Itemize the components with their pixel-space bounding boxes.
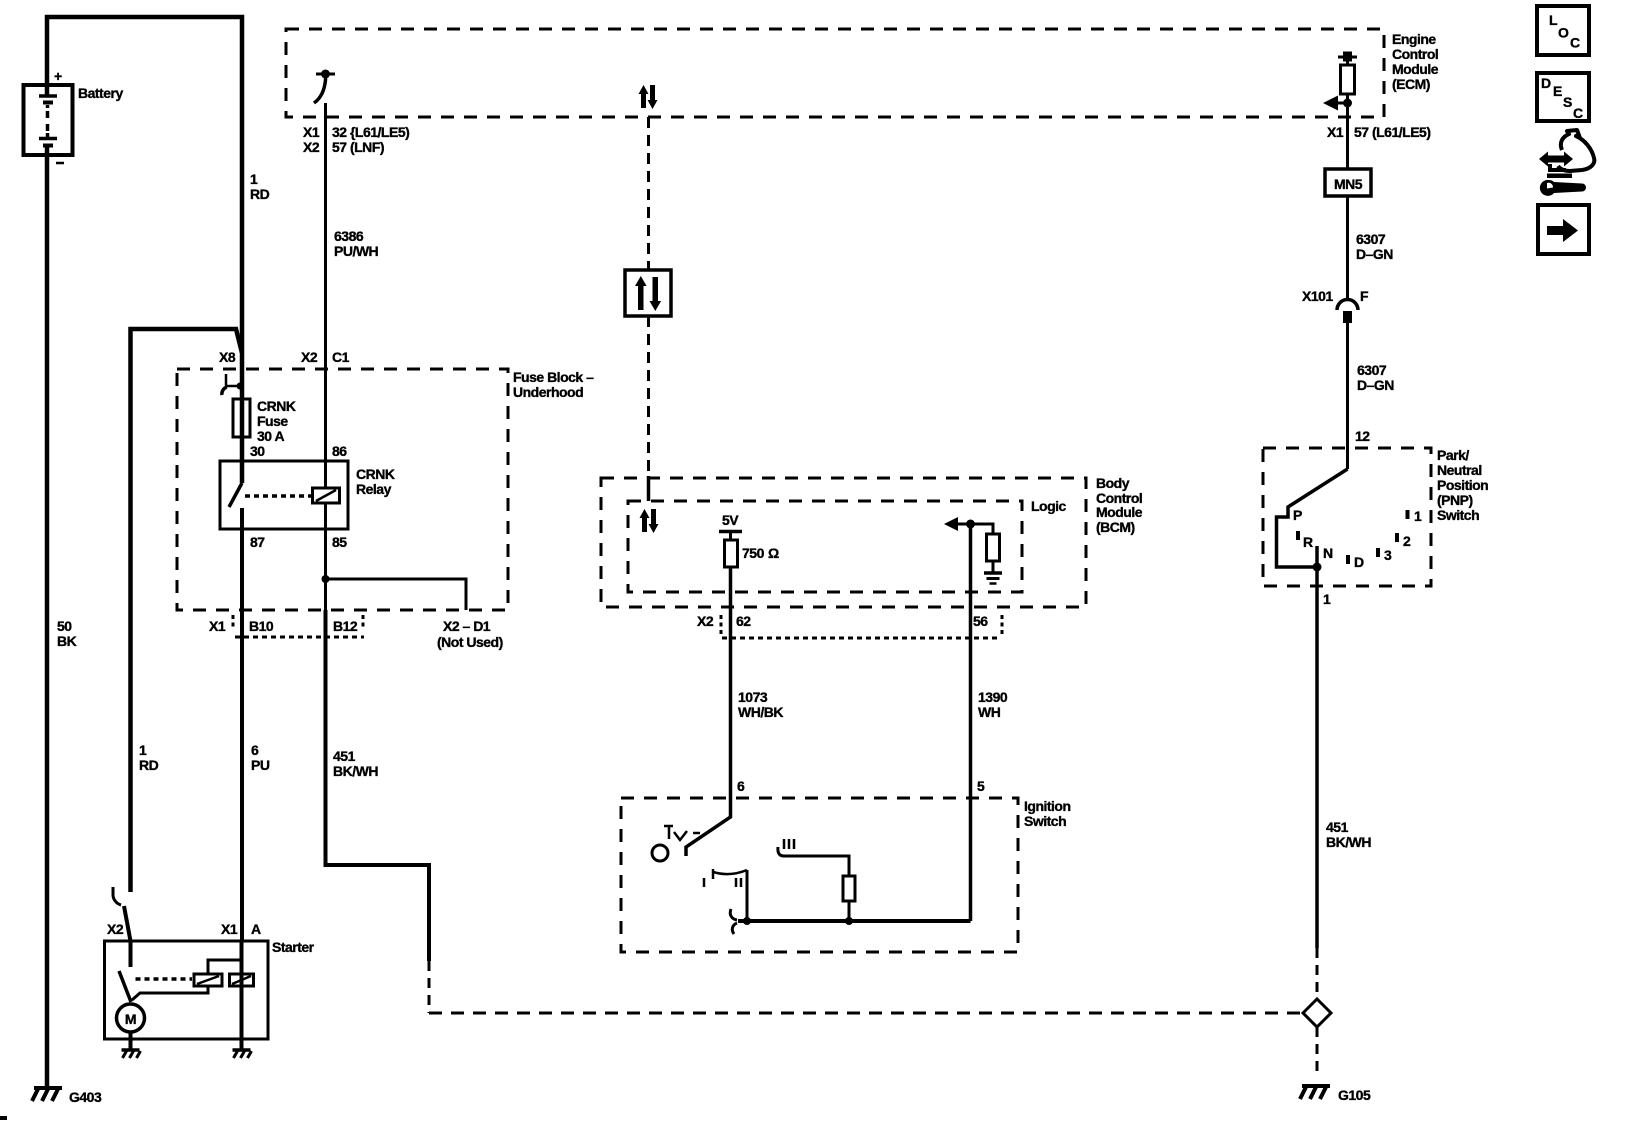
svg-text:X101: X101 xyxy=(1302,288,1333,304)
svg-text:Control: Control xyxy=(1392,46,1438,62)
svg-text:6307: 6307 xyxy=(1357,362,1387,378)
svg-text:Relay: Relay xyxy=(356,481,392,497)
svg-text:5V: 5V xyxy=(722,512,739,528)
svg-text:D–GN: D–GN xyxy=(1356,246,1393,262)
svg-text:57 (L61/LE5): 57 (L61/LE5) xyxy=(1354,124,1430,140)
svg-text:87: 87 xyxy=(250,534,265,550)
svg-text:Ignition: Ignition xyxy=(1024,798,1071,814)
svg-text:62: 62 xyxy=(736,613,751,629)
svg-text:Underhood: Underhood xyxy=(513,384,583,400)
svg-text:86: 86 xyxy=(332,443,347,459)
svg-text:85: 85 xyxy=(332,534,347,550)
svg-text:X1: X1 xyxy=(303,124,320,140)
svg-text:X8: X8 xyxy=(219,349,236,365)
svg-text:X2: X2 xyxy=(303,139,320,155)
svg-text:32 {L61/LE5): 32 {L61/LE5) xyxy=(332,124,409,140)
svg-text:RD: RD xyxy=(250,186,270,202)
svg-text:Module: Module xyxy=(1392,61,1439,77)
svg-text:G403: G403 xyxy=(69,1089,102,1105)
svg-text:Fuse Block –: Fuse Block – xyxy=(513,369,594,385)
svg-text:MN5: MN5 xyxy=(1334,176,1363,192)
svg-text:C1: C1 xyxy=(332,349,350,365)
svg-text:6: 6 xyxy=(251,742,259,758)
svg-text:Switch: Switch xyxy=(1024,813,1066,829)
svg-text:30: 30 xyxy=(250,443,265,459)
svg-text:Fuse: Fuse xyxy=(257,413,288,429)
svg-text:750: 750 xyxy=(742,545,765,561)
svg-text:1: 1 xyxy=(250,171,258,187)
svg-text:P: P xyxy=(1293,507,1302,523)
svg-text:F: F xyxy=(1360,288,1369,304)
svg-text:57 (LNF): 57 (LNF) xyxy=(332,139,384,155)
svg-text:C: C xyxy=(1570,35,1580,51)
svg-text:1: 1 xyxy=(139,742,147,758)
svg-text:Engine: Engine xyxy=(1392,31,1436,47)
svg-text:451: 451 xyxy=(333,748,356,764)
svg-text:CRNK: CRNK xyxy=(257,398,296,414)
svg-text:X2: X2 xyxy=(697,613,714,629)
svg-text:BK: BK xyxy=(57,633,77,649)
svg-text:Switch: Switch xyxy=(1437,507,1479,523)
svg-text:1390: 1390 xyxy=(978,689,1008,705)
svg-text:(Not Used): (Not Used) xyxy=(437,634,503,650)
svg-text:6386: 6386 xyxy=(334,228,364,244)
svg-text:2: 2 xyxy=(1403,533,1411,549)
svg-text:S: S xyxy=(1563,94,1572,110)
svg-text:Park/: Park/ xyxy=(1437,447,1469,463)
svg-text:1: 1 xyxy=(1414,508,1422,524)
svg-text:X1: X1 xyxy=(221,921,238,937)
svg-text:X1: X1 xyxy=(209,618,226,634)
svg-text:D: D xyxy=(1354,554,1364,570)
svg-text:Position: Position xyxy=(1437,477,1488,493)
svg-text:BK/WH: BK/WH xyxy=(1326,834,1371,850)
svg-text:56: 56 xyxy=(973,613,988,629)
svg-text:(PNP): (PNP) xyxy=(1437,492,1473,508)
svg-text:50: 50 xyxy=(57,618,72,634)
svg-text:(ECM): (ECM) xyxy=(1392,76,1430,92)
svg-text:30 A: 30 A xyxy=(257,428,284,444)
svg-text:WH/BK: WH/BK xyxy=(738,704,783,720)
svg-text:B10: B10 xyxy=(249,618,274,634)
svg-text:N: N xyxy=(1323,545,1333,561)
svg-text:6: 6 xyxy=(737,778,745,794)
svg-text:WH: WH xyxy=(978,704,1001,720)
svg-text:Body: Body xyxy=(1096,475,1130,491)
svg-text:B12: B12 xyxy=(333,618,358,634)
svg-text:X2: X2 xyxy=(107,921,124,937)
svg-text:M: M xyxy=(125,1011,136,1027)
svg-text:1: 1 xyxy=(1323,591,1331,607)
svg-text:X1: X1 xyxy=(1327,124,1344,140)
svg-text:E: E xyxy=(1553,83,1562,99)
svg-text:+: + xyxy=(54,68,62,84)
svg-text:Neutral: Neutral xyxy=(1437,462,1482,478)
svg-text:A: A xyxy=(251,921,261,937)
svg-text:Starter: Starter xyxy=(272,939,315,955)
svg-text:O: O xyxy=(1558,25,1569,41)
svg-text:G105: G105 xyxy=(1338,1087,1371,1103)
svg-text:5: 5 xyxy=(977,778,985,794)
svg-text:Battery: Battery xyxy=(78,85,123,101)
svg-text:RD: RD xyxy=(139,757,159,773)
svg-text:Logic: Logic xyxy=(1031,498,1067,514)
svg-text:X2 – D1: X2 – D1 xyxy=(443,618,491,634)
svg-text:PU: PU xyxy=(251,757,270,773)
svg-text:Module: Module xyxy=(1096,504,1143,520)
svg-text:D: D xyxy=(1541,75,1551,91)
svg-text:C: C xyxy=(1573,105,1583,121)
svg-text:(BCM): (BCM) xyxy=(1096,519,1135,535)
svg-text:451: 451 xyxy=(1326,819,1349,835)
svg-text:R: R xyxy=(1303,534,1313,550)
svg-text:X2: X2 xyxy=(301,349,318,365)
svg-text:D–GN: D–GN xyxy=(1357,377,1394,393)
svg-text:CRNK: CRNK xyxy=(356,466,395,482)
svg-text:L: L xyxy=(1549,12,1558,28)
svg-text:Ω: Ω xyxy=(768,545,779,561)
svg-text:BK/WH: BK/WH xyxy=(333,763,378,779)
svg-text:12: 12 xyxy=(1355,428,1370,444)
svg-text:PU/WH: PU/WH xyxy=(334,243,379,259)
svg-text:6307: 6307 xyxy=(1356,231,1386,247)
svg-text:1073: 1073 xyxy=(738,689,768,705)
svg-text:3: 3 xyxy=(1384,547,1392,563)
